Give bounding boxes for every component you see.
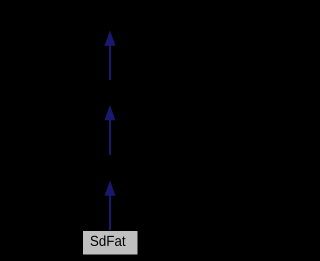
node SdFat (current class, grey filled box) [83, 231, 139, 256]
inheritance diagram: SdFat class hierarchy on black background [0, 0, 220, 261]
arrow A: SdFat -> node3 [105, 181, 116, 232]
node 1 (top ancestor, invisible black box) [83, 6, 139, 31]
arrow C: node2 -> node1 [105, 31, 116, 81]
node 2 (invisible black box) [83, 81, 139, 106]
label SdFat [91, 235, 126, 246]
node 3 (invisible black box) [83, 156, 139, 181]
arrow B: node3 -> node2 [105, 105, 116, 156]
